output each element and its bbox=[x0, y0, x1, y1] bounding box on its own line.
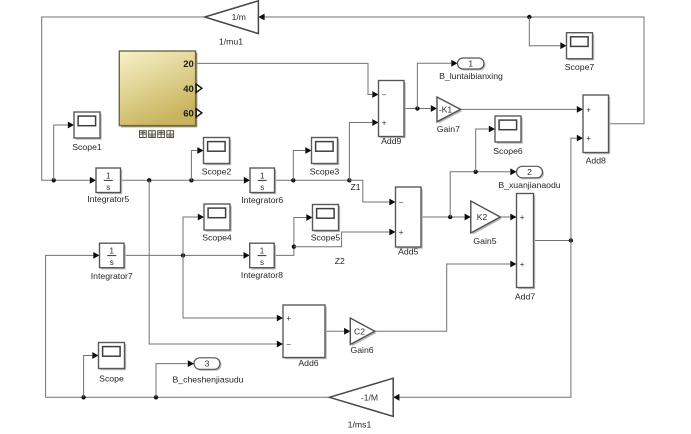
svg-text:Z2: Z2 bbox=[335, 256, 345, 266]
svg-text:+: + bbox=[520, 213, 525, 222]
junction node Integrator7 output bbox=[181, 253, 185, 257]
integrator Integrator7 (1/s) bbox=[91, 243, 133, 281]
label of road model (CJK glyph marks) bbox=[140, 131, 174, 138]
svg-text:+: + bbox=[586, 134, 591, 143]
svg-text:1: 1 bbox=[260, 171, 265, 180]
subsystem road model (yellow) bbox=[119, 51, 197, 127]
gain 1/ms1 bbox=[329, 378, 393, 429]
svg-text:Scope3: Scope3 bbox=[310, 167, 340, 177]
junction node Integrator5 output bbox=[147, 178, 151, 182]
svg-text:+: + bbox=[286, 314, 291, 323]
wire: branch up to Scope2 bbox=[191, 151, 197, 181]
svg-text:Integrator8: Integrator8 bbox=[241, 270, 283, 280]
junction node before port 2 bbox=[474, 170, 478, 174]
wire: down to gain 1/ms1 input bbox=[399, 241, 571, 398]
wire: branch up to Scope6 bbox=[476, 129, 489, 172]
svg-text:1: 1 bbox=[468, 59, 473, 69]
svg-text:B_xuanjianaodu: B_xuanjianaodu bbox=[498, 180, 560, 190]
wire: Add5 output to Gain5 bbox=[421, 216, 464, 218]
junction node before Integrator6 bbox=[189, 178, 193, 182]
junction node bottom loop near port 3 bbox=[154, 395, 158, 399]
svg-text:Scope7: Scope7 bbox=[565, 62, 595, 72]
wire: branch up to output port 2 bbox=[450, 172, 510, 217]
wire: Gain5 output to Add7 first input bbox=[500, 216, 510, 218]
gain Gain6 bbox=[350, 318, 376, 355]
svg-text:3: 3 bbox=[205, 359, 210, 369]
svg-text:Add5: Add5 bbox=[398, 247, 418, 257]
scope Scope5 bbox=[311, 205, 341, 243]
wire: branch down to Add6 first input bbox=[183, 255, 277, 318]
node Z1 junction bbox=[347, 178, 351, 182]
wire: up to Add8 second input bbox=[571, 138, 577, 240]
wire: Z1 up to Add9 plus input bbox=[349, 123, 372, 181]
scope Scope7 bbox=[565, 33, 595, 72]
wire: branch up to Scope bbox=[84, 356, 93, 398]
wire: Integrator6 output to node Z1 bbox=[275, 179, 350, 181]
scope Scope4 bbox=[202, 204, 232, 242]
scope Scope bbox=[99, 343, 127, 384]
wire: branch up to Scope3 bbox=[293, 151, 305, 181]
wire: Z1 down to Add5 minus input bbox=[349, 180, 389, 202]
svg-text:40: 40 bbox=[183, 84, 194, 95]
wire: branch down to Add6 second input bbox=[149, 180, 276, 344]
junction node before Scope3 bbox=[291, 178, 295, 182]
svg-text:+: + bbox=[520, 260, 525, 269]
gain Gain5 bbox=[471, 201, 502, 246]
wire: Gain7 output to Add8 first input bbox=[461, 108, 577, 110]
integrator Integrator6 (1/s) bbox=[241, 168, 283, 205]
svg-text:Gain7: Gain7 bbox=[437, 124, 460, 134]
junction on top loop wire bbox=[527, 15, 531, 19]
scope Scope6 bbox=[493, 116, 523, 156]
svg-text:-1/M: -1/M bbox=[361, 392, 378, 402]
unconnected output chevron port 60 bbox=[196, 109, 202, 117]
wire: Add7 output to node then Add8 and 1/ms1 bbox=[534, 240, 571, 242]
wire: gain 1/ms1 output loop to Integrator7 input bbox=[46, 255, 330, 397]
svg-text:1: 1 bbox=[106, 171, 111, 180]
node Z2 junction bbox=[292, 245, 296, 249]
input arrow of gain 1/mu1 bbox=[258, 14, 264, 21]
wire: road model port 20 to Add9 minus input bbox=[196, 63, 373, 94]
svg-text:C2: C2 bbox=[354, 326, 365, 336]
svg-text:Add7: Add7 bbox=[515, 292, 535, 302]
wire: gain 1/mu1 output down to Integrator5 input bbox=[42, 17, 205, 180]
svg-text:Add9: Add9 bbox=[381, 136, 401, 146]
sum block Add6 bbox=[283, 305, 327, 368]
svg-text:Scope4: Scope4 bbox=[202, 232, 232, 242]
output port B_xuanjianaodu bbox=[498, 166, 560, 190]
wire: Add9 output to Gain7 bbox=[404, 108, 431, 110]
wire: branch up to Scope1 bbox=[54, 125, 68, 180]
svg-text:Add8: Add8 bbox=[586, 156, 606, 166]
unconnected output chevron port 40 bbox=[196, 84, 202, 92]
svg-text:Integrator7: Integrator7 bbox=[91, 271, 133, 281]
junction node Add7 output bbox=[569, 238, 573, 242]
svg-text:Gain6: Gain6 bbox=[350, 345, 373, 355]
svg-text:−: − bbox=[286, 340, 291, 349]
gain 1/mu1 bbox=[205, 1, 259, 47]
junction node on Add5-Gain5 wire bbox=[448, 215, 452, 219]
wire: branch up to Scope4 bbox=[183, 217, 198, 255]
gain Gain7 bbox=[437, 97, 463, 134]
sum block Add7 bbox=[515, 194, 535, 302]
wire: Add8 output loop to gain 1/mu1 input bbox=[264, 17, 644, 124]
sum block Add5 bbox=[396, 187, 423, 257]
integrator Integrator5 (1/s) bbox=[87, 168, 129, 204]
junction node bottom loop near Scope bbox=[81, 395, 85, 399]
svg-text:B_cheshenjiasudu: B_cheshenjiasudu bbox=[172, 374, 243, 384]
svg-text:Scope1: Scope1 bbox=[72, 142, 102, 152]
svg-text:-K1: -K1 bbox=[439, 104, 453, 114]
svg-text:Integrator5: Integrator5 bbox=[87, 194, 129, 204]
svg-text:Z1: Z1 bbox=[351, 182, 361, 192]
svg-text:2: 2 bbox=[527, 167, 532, 177]
svg-text:1/m: 1/m bbox=[232, 12, 246, 22]
svg-text:−: − bbox=[382, 90, 387, 99]
sum block Add8 bbox=[583, 95, 610, 166]
output port B_luntaibianxing bbox=[439, 58, 503, 81]
svg-text:s: s bbox=[260, 183, 264, 192]
svg-text:1: 1 bbox=[260, 247, 265, 256]
wire: Add6 output to Gain6 bbox=[325, 330, 344, 332]
svg-text:Integrator6: Integrator6 bbox=[241, 195, 283, 205]
output port B_cheshenjiasudu bbox=[172, 358, 243, 385]
svg-text:Scope2: Scope2 bbox=[202, 167, 232, 177]
scope Scope2 bbox=[202, 138, 232, 177]
svg-text:s: s bbox=[260, 258, 264, 267]
svg-text:B_luntaibianxing: B_luntaibianxing bbox=[439, 71, 503, 81]
integrator Integrator8 (1/s) bbox=[241, 243, 283, 280]
wire: branch down to Scope7 bbox=[529, 17, 560, 46]
svg-text:+: + bbox=[382, 118, 387, 127]
scope Scope3 bbox=[310, 138, 340, 177]
svg-text:60: 60 bbox=[183, 108, 194, 119]
svg-text:Scope6: Scope6 bbox=[493, 146, 523, 156]
svg-text:20: 20 bbox=[183, 59, 194, 70]
svg-text:+: + bbox=[399, 228, 404, 237]
svg-text:−: − bbox=[399, 198, 404, 207]
junction node after 1/mu1 run bbox=[52, 178, 56, 182]
svg-text:s: s bbox=[106, 183, 110, 192]
svg-text:+: + bbox=[586, 105, 591, 114]
svg-text:Gain5: Gain5 bbox=[473, 236, 496, 246]
svg-text:1: 1 bbox=[110, 247, 115, 256]
wire: Integrator8 output up to Scope5 bbox=[274, 218, 306, 256]
svg-text:Scope5: Scope5 bbox=[311, 232, 341, 242]
svg-text:s: s bbox=[110, 258, 114, 267]
wire: branch up to output port 1 bbox=[417, 63, 451, 108]
wire: branch up to output port 3 bbox=[156, 364, 188, 398]
svg-text:Add6: Add6 bbox=[298, 358, 318, 368]
wire: Integrator7 output to Integrator8 input bbox=[124, 254, 243, 256]
sum block Add9 bbox=[379, 81, 406, 147]
wire: Integrator5 output to Integrator6 input bbox=[121, 179, 244, 181]
svg-text:1/mu1: 1/mu1 bbox=[219, 37, 243, 47]
svg-text:Scope: Scope bbox=[99, 373, 124, 383]
svg-text:1/ms1: 1/ms1 bbox=[348, 419, 372, 429]
svg-text:K2: K2 bbox=[477, 212, 488, 222]
junction node Add9 output bbox=[415, 106, 419, 110]
scope Scope1 bbox=[72, 112, 102, 152]
wire: Z2 to Add5 plus input bbox=[294, 232, 389, 247]
wire: Gain6 output to Add7 second input bbox=[375, 264, 510, 331]
